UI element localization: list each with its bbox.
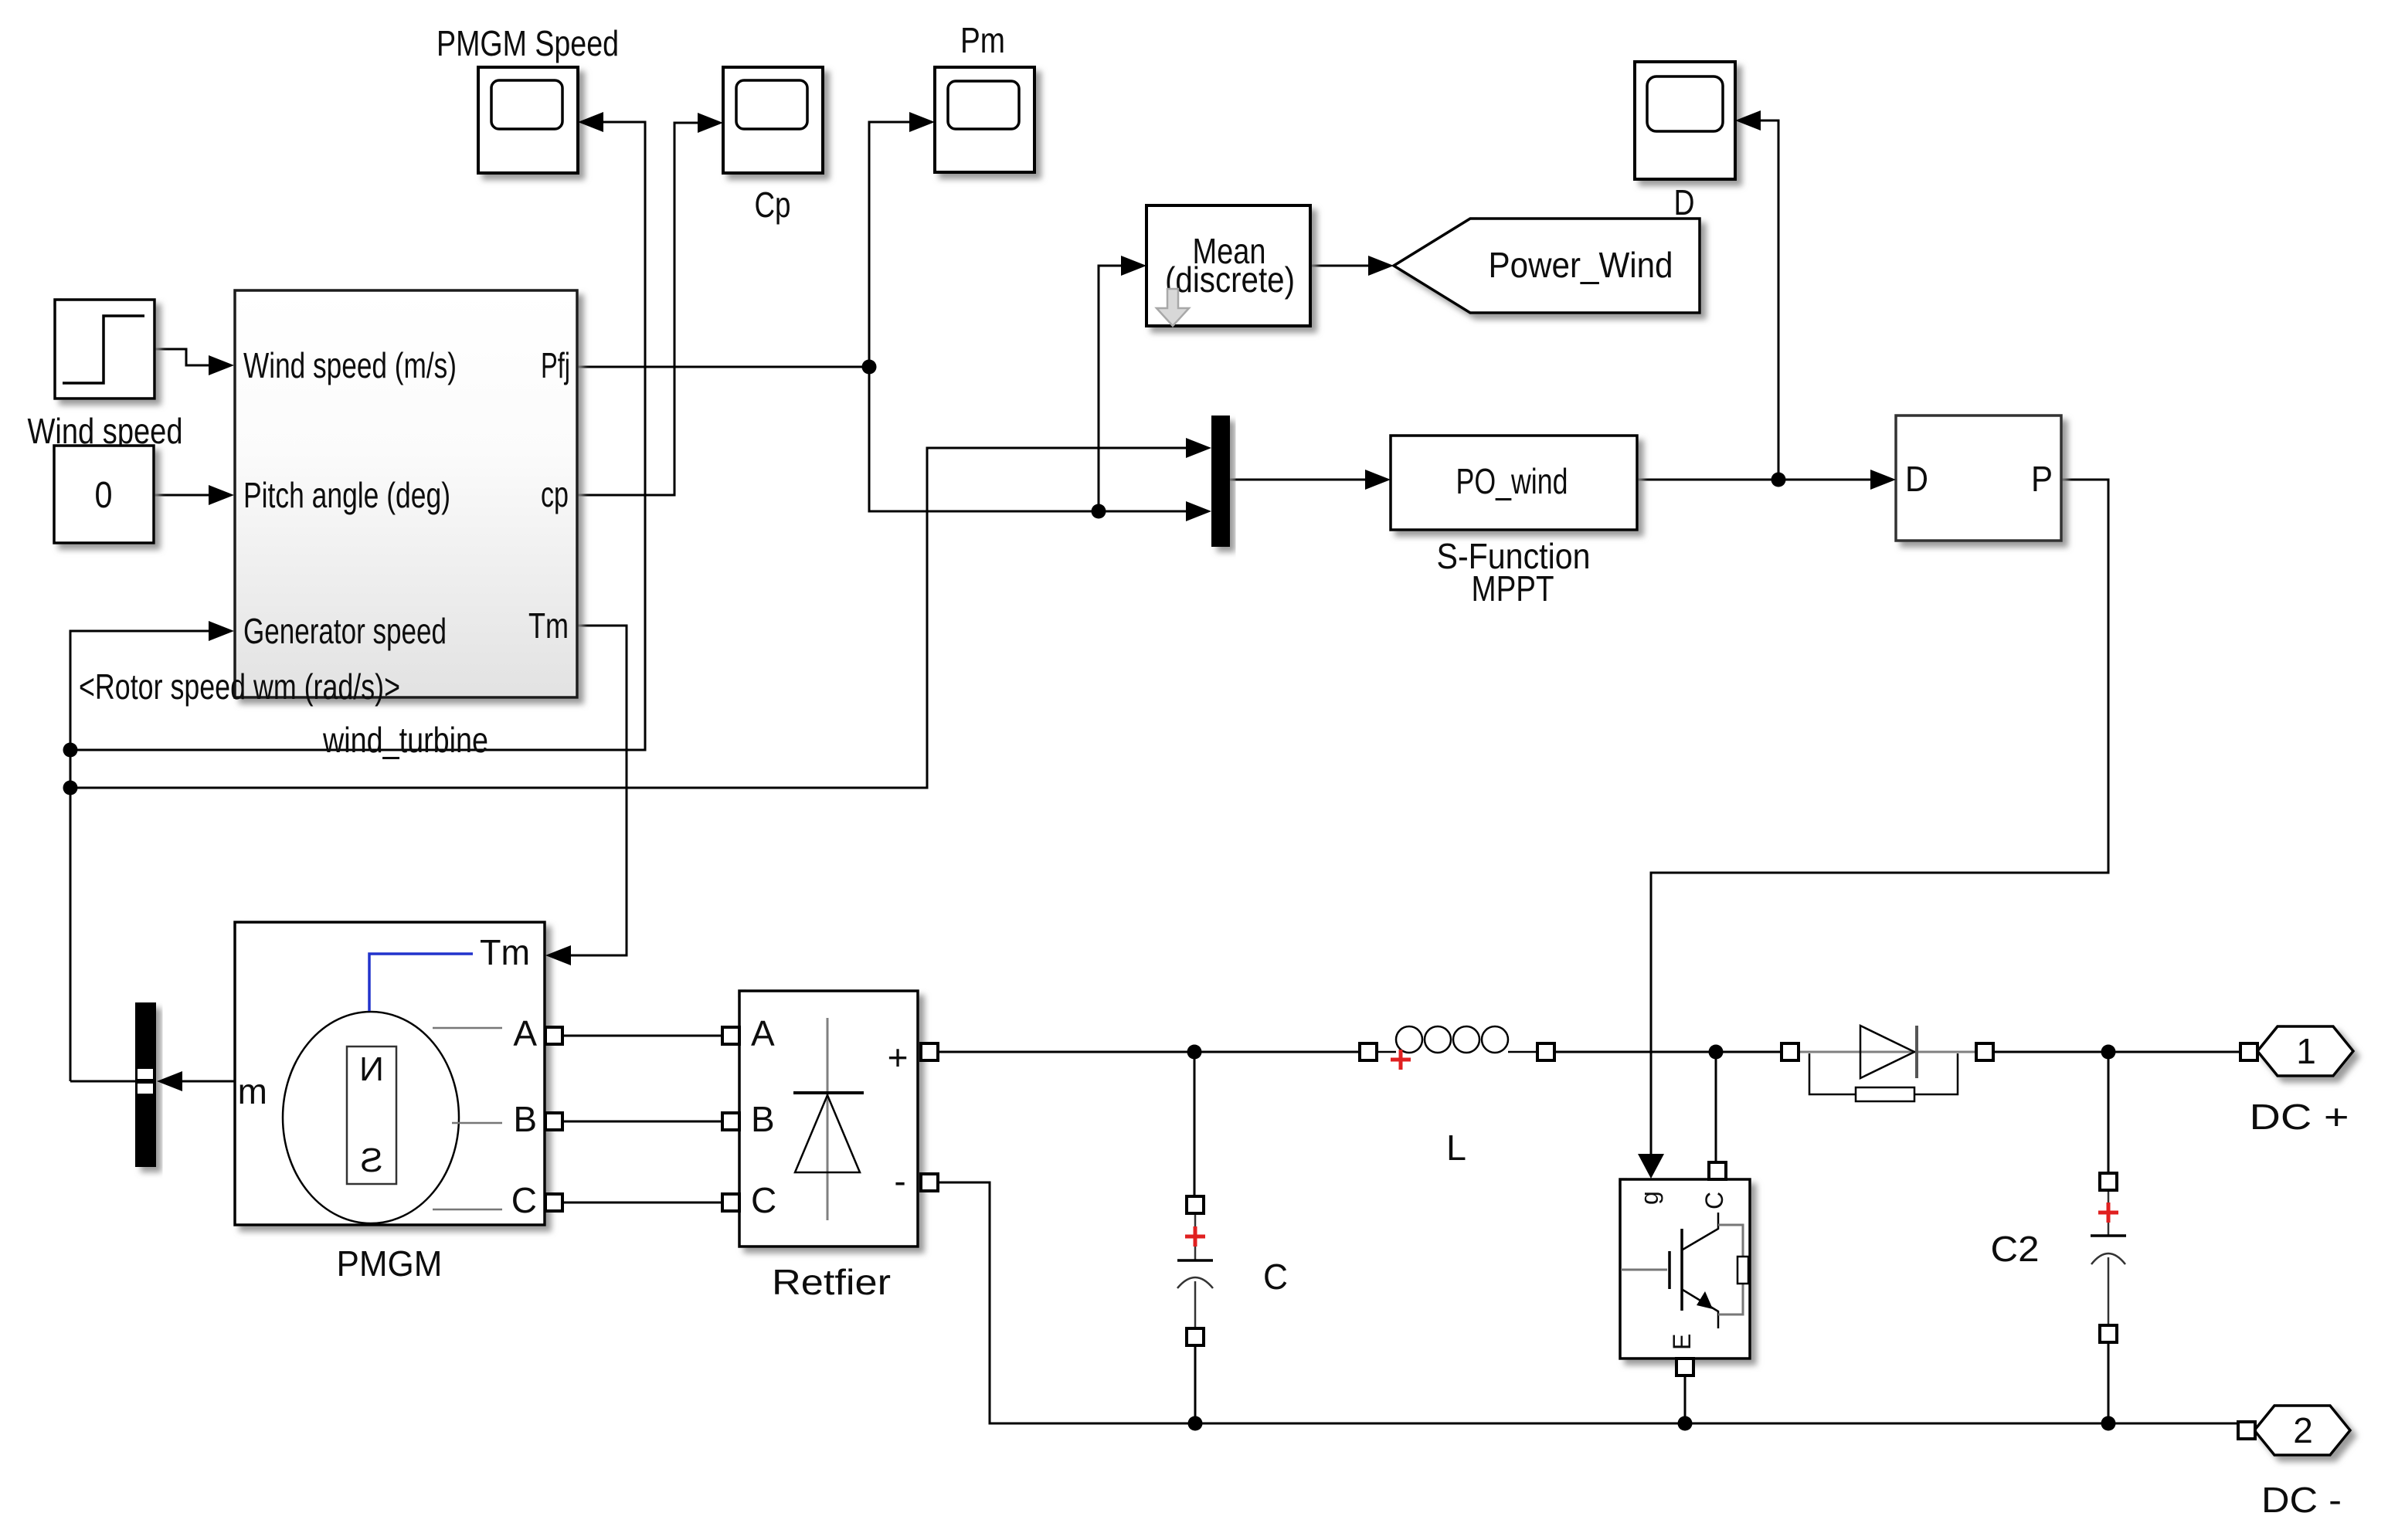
signal Tm blue label and wire [369,932,530,1011]
wire duty junction up to D scope [1759,120,1778,480]
port square PMGM B [545,1113,562,1130]
svg-text:g: g [1636,1191,1663,1205]
svg-text:MPPT: MPPT [1472,568,1554,609]
wire junction down to mux input 2 [869,367,1187,511]
arrow into D scope [1735,110,1761,131]
junction rotor speed lower [63,781,78,795]
wire PO_wind output to D input [1637,479,1872,481]
svg-text:Generator speed: Generator speed [243,611,447,651]
block Mean (discrete) [1146,205,1310,326]
svg-text:PO_wind: PO_wind [1456,461,1568,501]
port square C bottom [1187,1328,1204,1345]
svg-text:2: 2 [2293,1410,2313,1450]
arrow into Pitch angle input [209,485,234,505]
subsystem wind_turbine [235,290,577,760]
wire cp output to Cp scope [577,123,699,495]
port square Retfier minus [921,1174,938,1191]
svg-text:DC +: DC + [2250,1097,2349,1137]
arrow into PO_wind [1365,470,1391,490]
port square Retfier A [722,1027,739,1044]
junction C tap [1187,1045,1202,1060]
wire Tm output to PMGM Tm input [569,626,627,955]
svg-text:Power_Wind: Power_Wind [1489,245,1673,285]
wire Mean output to Power_Wind tag [1310,265,1370,267]
svg-text:S: S [360,1141,382,1179]
svg-text:Pfj: Pfj [541,345,570,385]
port square IGBT collector [1709,1162,1726,1179]
svg-text:Wind speed (m/s): Wind speed (m/s) [243,345,457,385]
arrow into IGBT gate [1638,1154,1664,1179]
wire PMGM m output to bus selector [70,1080,235,1083]
diode D1 with snubber [1799,1026,1976,1101]
svg-text:m: m [238,1071,267,1111]
port square Retfier B [722,1113,739,1130]
goto tag Power_Wind [1394,219,1700,313]
junction IGBT collector tap [1709,1045,1724,1060]
IGBT switch [1620,1179,1750,1359]
svg-text:D: D [1905,459,1928,499]
scope Cp [723,67,823,225]
wire IGBT emitter to rail [1684,1375,1687,1423]
wire junction down to IGBT collector [1715,1052,1717,1162]
port square diode left [1782,1043,1799,1060]
arrow into Cp scope [698,113,723,133]
wire DC minus rail [938,1182,2238,1423]
port square Retfier C [722,1194,739,1211]
svg-text:A: A [513,1013,537,1053]
scope Pm [935,20,1034,172]
wire rotor speed to Generator speed input [70,631,210,750]
svg-text:Cp: Cp [755,185,791,225]
svg-text:D: D [1674,182,1695,222]
wire capacitor C bottom to rail [1194,1345,1197,1423]
port square PMGM A [545,1027,562,1044]
svg-text:N: N [359,1050,384,1088]
svg-text:<Rotor speed wm (rad/s)>: <Rotor speed wm (rad/s)> [79,667,400,707]
wire junction up to Pm scope [869,122,911,367]
junction C2 bottom [2101,1416,2116,1431]
svg-text:B: B [751,1099,775,1139]
svg-text:1: 1 [2296,1031,2316,1071]
scope PMGM Speed [436,23,619,173]
port square L left [1360,1043,1377,1060]
wire Pfj output to junction [577,366,869,368]
annotation Rotor speed wm [79,667,400,707]
svg-text:Tm: Tm [528,605,569,646]
step source Wind speed [28,300,183,451]
wire constant 0 to Pitch angle input [154,494,210,497]
wire phase C PMGM to Retfier [563,1202,722,1204]
port square DC plus [2240,1043,2257,1060]
port square diode right [1976,1043,1993,1060]
port square C2 bottom [2100,1325,2117,1342]
arrow into mux input 2 [1186,501,1211,521]
bus selector [135,1002,156,1167]
svg-text:DC -: DC - [2261,1480,2342,1520]
arrow into D input [1870,470,1896,490]
port square PMGM C [545,1194,562,1211]
wire mux output to PO_wind [1230,479,1367,481]
svg-text:C: C [751,1180,776,1220]
junction C bottom [1188,1416,1203,1431]
outport 1 DC plus [2250,1026,2354,1137]
wire P output to IGBT gate [1651,480,2108,1155]
junction rotor speed upper [63,743,78,758]
svg-text:PMGM: PMGM [337,1243,443,1284]
svg-text:E: E [1668,1334,1696,1350]
mux bus creator [1211,416,1230,547]
wire phase B PMGM to Retfier [563,1121,722,1123]
wire junction down to capacitor C [1194,1052,1196,1196]
svg-text:PMGM Speed: PMGM Speed [436,23,619,63]
svg-text:0: 0 [95,475,113,516]
junction emitter bottom [1678,1416,1693,1431]
arrow into bus selector [157,1071,182,1091]
wire net rotor speed vertical from bus selector [70,750,72,1081]
svg-text:B: B [513,1099,537,1139]
svg-text:P: P [2031,459,2053,499]
wire phase A PMGM to Retfier [563,1035,722,1037]
junction Pfj [862,360,877,375]
svg-text:Pm: Pm [960,20,1005,60]
svg-text:Pitch angle (deg): Pitch angle (deg) [243,475,450,515]
arrow into Generator speed input [209,621,234,641]
arrow into PMGM Speed scope [578,112,603,132]
arrow into Wind speed input [209,355,234,375]
port square C2 top [2100,1173,2117,1190]
svg-text:C2: C2 [1991,1229,2040,1269]
svg-text:wind_turbine: wind_turbine [322,720,488,760]
rectifier Retfier [739,991,918,1302]
wire inductor to diode [1554,1051,1782,1053]
junction duty [1771,473,1786,487]
svg-text:+: + [888,1037,909,1077]
wire rotor speed to mux input 1 [70,448,1187,788]
machine PMGM [235,922,545,1284]
svg-text:Tm: Tm [480,932,530,972]
wire DC plus rail Retfier to inductor [938,1051,1360,1053]
arrow into Pm scope [909,112,935,132]
port square Retfier plus [921,1043,938,1060]
svg-text:(discrete): (discrete) [1165,259,1295,300]
port square C top [1187,1196,1204,1213]
wire step to wind_turbine Wind speed input [155,349,210,365]
subsystem D to P [1896,416,2061,541]
svg-text:cp: cp [541,474,569,514]
wire diode to DC plus port [1993,1051,2240,1053]
svg-text:C: C [511,1180,537,1220]
svg-text:-: - [894,1161,905,1201]
outport 2 DC minus [2254,1406,2350,1520]
junction Mean tap [1092,504,1106,519]
junction C2 tap [2101,1045,2116,1060]
svg-text:C: C [1700,1192,1728,1209]
port square IGBT emitter [1676,1359,1693,1375]
svg-text:Retfier: Retfier [772,1262,891,1302]
S-Function PO_wind [1391,436,1637,609]
arrow into PMGM Tm [545,945,571,965]
constant 0 [54,446,154,543]
port square L right [1537,1043,1554,1060]
wire junction down to capacitor C2 [2108,1052,2110,1173]
wire rotor speed to PMGM Speed scope [70,122,645,750]
arrow into Mean [1121,256,1146,276]
svg-text:C: C [1263,1257,1288,1297]
inductor L [1377,1026,1537,1168]
scope D [1635,62,1735,222]
wire junction up to Mean input [1099,266,1123,511]
port square DC minus [2238,1422,2255,1439]
capacitor C [1177,1213,1288,1328]
svg-text:L: L [1446,1128,1466,1168]
capacitor C2 [1991,1190,2127,1325]
svg-text:A: A [751,1013,775,1053]
arrow into Power_Wind [1368,256,1394,276]
arrow into mux input 1 [1186,438,1211,458]
wire capacitor C2 bottom to rail [2108,1342,2110,1423]
